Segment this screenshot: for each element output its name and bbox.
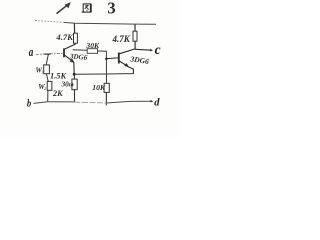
resistor RE lead bottom xyxy=(74,90,76,102)
svg-text:3DG6: 3DG6 xyxy=(129,54,150,66)
wire b to rail corner xyxy=(33,102,47,104)
transistor Q2 emitter with arrow xyxy=(119,61,129,67)
transistor Q1 emitter with arrow xyxy=(64,55,74,63)
figure arrow xyxy=(57,2,71,13)
resistor R2 lead bottom xyxy=(134,41,136,49)
svg-text:4.7K: 4.7K xyxy=(55,32,74,42)
transistor Q1 collector xyxy=(64,44,75,49)
resistor R1 lead top xyxy=(73,23,75,33)
wire collector node to c xyxy=(135,48,151,51)
potentiometer W1 box xyxy=(44,65,50,74)
transistor Q2 base bar xyxy=(118,53,120,64)
transistor Q1 base bar xyxy=(63,48,65,57)
svg-text:c: c xyxy=(155,42,161,57)
svg-text:a: a xyxy=(29,46,34,60)
top supply rail xyxy=(35,21,156,25)
svg-text:3: 3 xyxy=(107,0,115,18)
transistor Q2 collector xyxy=(119,49,135,54)
svg-text:d: d xyxy=(154,97,160,108)
wire junction down to 10K xyxy=(105,59,107,84)
svg-text:2K: 2K xyxy=(52,89,63,98)
terminal c arrow end xyxy=(150,49,153,52)
wire emitter bus horizontal xyxy=(74,73,133,76)
bottom rail xyxy=(48,101,75,103)
wire Q2 emitter bend down xyxy=(129,67,134,74)
svg-text:3DG6: 3DG6 xyxy=(69,52,88,62)
resistor RE lead top xyxy=(73,74,75,79)
resistor R1 4.7K xyxy=(74,33,78,43)
resistor R2 lead top xyxy=(134,24,136,31)
resistor 10K lead bottom xyxy=(105,92,107,105)
wire 30K to corner xyxy=(98,51,107,59)
svg-text:4.7K: 4.7K xyxy=(112,34,131,44)
svg-text:1: 1 xyxy=(41,69,43,74)
resistor 10K xyxy=(104,83,109,92)
svg-text:30ω: 30ω xyxy=(61,81,74,89)
wire W2 down to bottom rail xyxy=(47,90,49,101)
wire a to Q1 base xyxy=(36,53,64,54)
svg-text:30K: 30K xyxy=(85,41,100,50)
svg-text:1.5K: 1.5K xyxy=(50,71,67,80)
wire a solid segment xyxy=(44,53,50,55)
resistor 30K (horizontal) xyxy=(87,49,97,54)
wire branch to W1 xyxy=(46,54,48,65)
node Q1 emitter junction xyxy=(73,73,76,76)
resistor R1 lead bottom xyxy=(74,43,76,45)
svg-text:b: b xyxy=(27,98,31,110)
wire Q1 emitter down to node xyxy=(73,62,75,74)
wire junction to Q2 base xyxy=(106,57,118,60)
node Q2 base junction xyxy=(105,58,108,61)
resistor R2 4.7K xyxy=(133,31,137,41)
figure label 图 xyxy=(82,4,92,12)
resistor RE 30ω xyxy=(72,79,77,90)
potentiometer W2 box xyxy=(47,81,52,90)
terminal d arrow end xyxy=(151,100,154,103)
wire Q1 collector node to 30K xyxy=(73,49,88,51)
svg-text:2: 2 xyxy=(44,86,46,91)
wire W1 to W2 xyxy=(46,74,48,82)
